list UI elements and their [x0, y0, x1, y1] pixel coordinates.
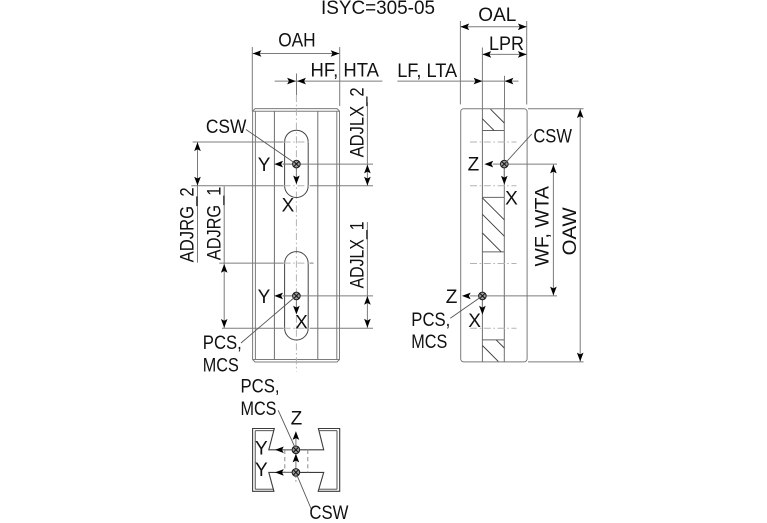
front slot2 center mark: [293, 292, 301, 300]
side hatch boundary lines: [482, 131, 504, 340]
svg-text:Z: Z: [291, 409, 303, 430]
bottom mark2 Y axis: [255, 460, 296, 481]
dimension ADJLX_1: [347, 221, 370, 328]
svg-text:CSW: CSW: [206, 117, 247, 138]
side CSW label: [533, 127, 572, 148]
side PCS MCS leader: [450, 297, 480, 318]
side line slot1 center: [504, 163, 557, 165]
front slot 1 (top): [285, 130, 309, 197]
front PCS MCS label: [203, 333, 242, 377]
front view outer outline: [253, 109, 340, 362]
svg-text:ADJLX_1: ADJLX_1: [347, 221, 368, 288]
svg-text:PCS,: PCS,: [203, 333, 242, 354]
front PCS MCS leader: [241, 298, 294, 343]
svg-text:CSW: CSW: [533, 127, 572, 148]
svg-text:ADJRG_2: ADJRG_2: [178, 187, 199, 262]
side hatch block C: [482, 340, 504, 362]
line slot2 bottom arc center: [222, 327, 373, 329]
side slot2 center mark: [479, 292, 487, 300]
side view strip line right: [503, 109, 505, 362]
svg-text:PCS,: PCS,: [241, 376, 280, 397]
side slot1 Z axis: [468, 155, 505, 176]
bottom PCS MCS label: [241, 376, 280, 420]
bottom mark1 Z axis: [291, 409, 303, 450]
svg-text:Z: Z: [468, 155, 480, 176]
svg-text:Y: Y: [255, 439, 268, 460]
svg-text:ADJRG_1: ADJRG_1: [204, 187, 225, 261]
svg-text:X: X: [468, 311, 481, 332]
front slot1 center mark: [293, 160, 301, 168]
front view channel wall right: [317, 111, 319, 359]
side CSW leader: [506, 134, 532, 162]
dimension ADJRG_2: [178, 142, 201, 263]
svg-text:X: X: [282, 196, 295, 217]
dimension LF, LTA: [397, 61, 518, 109]
side hatch block A: [482, 109, 504, 130]
svg-text:Y: Y: [258, 155, 271, 176]
side slot2 Z axis: [446, 287, 483, 308]
svg-text:ISYC=305-05: ISYC=305-05: [321, 0, 435, 19]
line slot1 mid center: [283, 163, 373, 165]
dimension ADJLX_2: [347, 87, 370, 185]
svg-text:MCS: MCS: [241, 399, 277, 420]
svg-text:OAL: OAL: [478, 5, 516, 26]
bottom CSW label: [309, 503, 348, 523]
svg-text:HF, HTA: HF, HTA: [311, 61, 380, 82]
dimension OAW: [528, 109, 584, 362]
line slot2 mid center: [283, 295, 373, 297]
side slot1 X axis: [501, 164, 518, 209]
svg-text:WF, WTA: WF, WTA: [532, 186, 553, 267]
dimension WF, WTA: [532, 164, 556, 296]
front view channel wall left: [273, 111, 275, 359]
svg-text:MCS: MCS: [203, 355, 239, 376]
bottom dotted stub: [295, 476, 297, 482]
line slot1 top arc center: [193, 141, 310, 143]
side line slot2 center: [482, 295, 557, 297]
side hatch block B: [482, 198, 504, 252]
side slot2 X axis: [468, 296, 485, 332]
svg-text:X: X: [505, 188, 518, 209]
svg-text:LF, LTA: LF, LTA: [397, 61, 457, 82]
side view strip line left: [481, 109, 483, 362]
svg-text:PCS,: PCS,: [411, 310, 450, 331]
svg-text:Y: Y: [255, 460, 268, 481]
front view vertical centerline: [295, 74, 297, 372]
dimension OAH: [252, 30, 339, 111]
svg-text:OAH: OAH: [278, 30, 316, 51]
side slot1 center mark: [501, 160, 509, 168]
front slot2 Y axis: [258, 287, 297, 308]
front slot1 X axis: [282, 164, 300, 217]
bottom mark1 Y axis: [255, 439, 296, 460]
front view inner edge lines: [253, 111, 339, 359]
bottom mark1 center: [292, 446, 300, 454]
svg-text:Z: Z: [446, 287, 458, 308]
bottom CSW leader: [297, 475, 311, 509]
front slot1 Y axis: [258, 155, 297, 176]
bottom mark2 center: [292, 469, 300, 477]
bottom view inner edge lines: [255, 431, 337, 490]
front CSW leader: [246, 130, 294, 163]
dimension LPR: [482, 34, 526, 109]
front CSW label: [206, 117, 247, 138]
title text ISYC=305-05: [321, 0, 435, 19]
front slot2 X axis: [293, 296, 308, 333]
bottom mark2 Z axis: [293, 454, 300, 473]
bottom view outer profile: [253, 429, 340, 492]
line slot1 bottom arc center: [191, 185, 373, 187]
svg-text:ADJLX_2: ADJLX_2: [347, 87, 368, 157]
svg-text:Y: Y: [258, 287, 271, 308]
bottom hidden slot walls: [285, 450, 308, 473]
dimension HF, HTA: [275, 61, 383, 85]
side dashed arc-center lines: [470, 142, 517, 328]
svg-text:LPR: LPR: [489, 34, 524, 55]
front slot 2 (bottom): [285, 252, 309, 340]
svg-text:CSW: CSW: [309, 503, 348, 523]
line slot2 top arc center: [219, 262, 313, 264]
svg-text:X: X: [295, 312, 308, 333]
bottom PCS MCS leader: [278, 410, 294, 446]
dimension OAL: [460, 5, 526, 105]
side view outline: [461, 109, 527, 362]
svg-text:OAW: OAW: [560, 207, 581, 255]
side PCS MCS label: [411, 310, 450, 353]
svg-text:MCS: MCS: [411, 332, 447, 353]
dimension ADJRG_1: [204, 186, 227, 328]
